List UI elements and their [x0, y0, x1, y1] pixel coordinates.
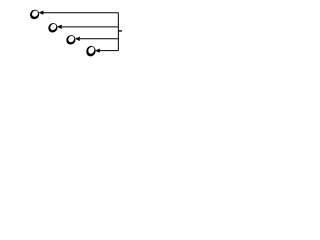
wire vertical bus	[117, 13, 119, 51]
arrowhead 4	[95, 48, 100, 52]
arrowhead 3	[75, 37, 80, 41]
wire arrow-2 line	[62, 26, 119, 28]
wire arrow-4 line	[100, 50, 119, 52]
wire arrow-1 line	[43, 12, 118, 14]
arrowhead 1	[39, 10, 44, 14]
node circle 1	[28, 8, 41, 21]
arrowhead 2	[57, 25, 62, 29]
node circle 2	[46, 21, 59, 34]
node circle 3	[64, 33, 77, 46]
wire tick stub	[118, 30, 122, 32]
wire arrow-3 line	[80, 38, 119, 40]
node circle 4	[84, 44, 97, 59]
